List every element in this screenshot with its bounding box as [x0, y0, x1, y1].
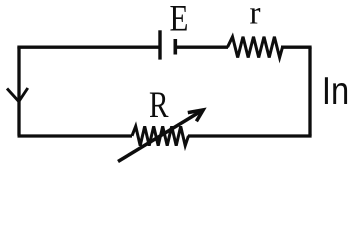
current arrow on left wire	[7, 88, 28, 102]
rheostat R zigzag	[132, 126, 189, 145]
wire: bottom-right segment	[188, 134, 312, 137]
rheostat R arrow shaft	[118, 111, 202, 162]
text In	[322, 69, 349, 112]
svg-text:In: In	[322, 69, 349, 112]
battery E right plate (short)	[174, 39, 178, 55]
wire: top-right segment	[281, 46, 312, 49]
battery E left plate (long)	[158, 30, 161, 59]
label R	[149, 85, 169, 126]
wire: top-left segment	[19, 47, 160, 48]
svg-text:r: r	[250, 0, 261, 32]
wire: left side	[17, 47, 20, 136]
wire: bottom-left segment	[18, 134, 133, 137]
wire: right side	[308, 47, 311, 136]
wire: top middle segment	[175, 46, 228, 49]
svg-text:R: R	[149, 85, 169, 126]
label E	[170, 0, 189, 39]
svg-text:E: E	[170, 0, 189, 39]
resistor r zigzag	[228, 37, 283, 58]
rheostat R arrow head	[188, 110, 203, 121]
